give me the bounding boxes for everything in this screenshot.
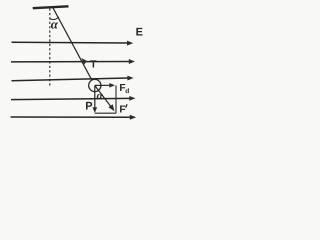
field line E3 [12, 76, 134, 81]
ball (charged sphere) [89, 79, 101, 91]
svg-text:P: P [85, 101, 92, 113]
field line E2 [11, 59, 135, 64]
svg-text:E: E [136, 27, 143, 39]
svg-text:α: α [51, 16, 59, 31]
field line E1 [12, 41, 134, 46]
svg-text:d: d [125, 88, 129, 95]
dashed vertical reference line [49, 9, 51, 88]
force rectangle right side [115, 85, 117, 113]
angle arc alpha at pivot [50, 17, 59, 20]
svg-text:F: F [119, 104, 125, 115]
force rectangle bottom side [95, 112, 116, 114]
svg-text:T: T [90, 60, 97, 71]
force F' resultant vector (diagonal) [95, 86, 115, 112]
svg-text:α: α [97, 90, 104, 102]
force Fd vector (horizontal) [95, 83, 115, 88]
string (pendulum thread) [53, 7, 92, 80]
field line E5 [11, 115, 137, 120]
ceiling support bar [33, 6, 69, 8]
field line E4 [11, 96, 136, 101]
force P vector (weight, down) [93, 86, 98, 114]
tension T arrowhead on string [81, 58, 87, 65]
